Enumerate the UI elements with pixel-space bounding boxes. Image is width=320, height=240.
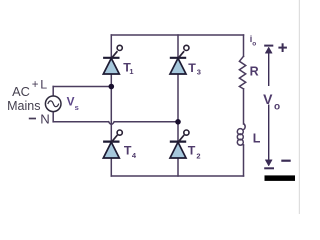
svg-text:o: o <box>274 102 280 113</box>
svg-text:L: L <box>253 132 261 146</box>
svg-text:Mains: Mains <box>7 99 40 113</box>
svg-text:L: L <box>40 78 47 92</box>
svg-text:AC: AC <box>12 84 30 99</box>
svg-text:T: T <box>188 144 196 158</box>
svg-text:s: s <box>75 103 79 112</box>
svg-text:V: V <box>67 94 75 108</box>
svg-text:2: 2 <box>196 152 200 161</box>
svg-text:N: N <box>40 111 50 126</box>
svg-text:R: R <box>250 65 259 79</box>
svg-text:+: + <box>32 79 39 91</box>
svg-text:V: V <box>263 91 273 107</box>
svg-text:T: T <box>124 144 132 158</box>
svg-text:3: 3 <box>197 67 201 76</box>
svg-text:T: T <box>188 61 196 75</box>
svg-text:1: 1 <box>129 67 133 76</box>
svg-text:o: o <box>252 40 256 47</box>
